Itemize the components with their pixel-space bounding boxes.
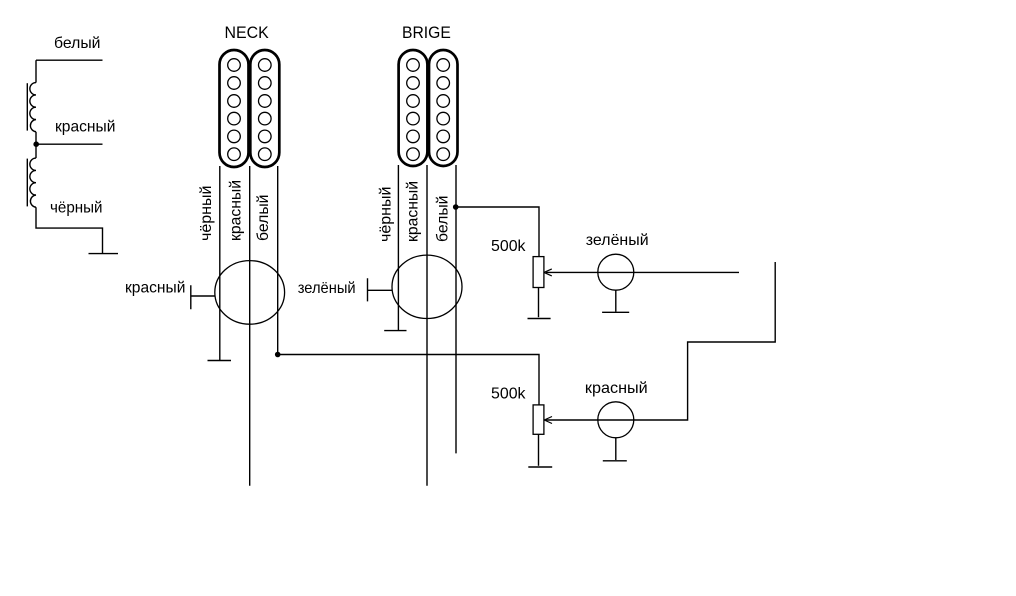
pickup NECK bobbin 2 (stadium outline): [250, 50, 279, 167]
svg-text:белый: белый: [435, 196, 452, 243]
core bar of inductor L2: [26, 159, 28, 207]
svg-text:BRIGE: BRIGE: [402, 23, 451, 42]
svg-text:500k: 500k: [491, 385, 526, 402]
wire: top lead of left coil pair (белый): [36, 59, 103, 61]
pickup NECK bobbin 2 pole pieces: [259, 59, 272, 161]
pickup BRIGE bobbin 2 pole pieces: [437, 59, 450, 161]
wire: neck чёрный down to ground: [219, 166, 221, 361]
wire: R1 bottom to ground: [538, 288, 540, 318]
wire: красный shield to ground: [615, 437, 617, 460]
wire: brige чёрный down to ground: [397, 165, 399, 331]
terminal tick of neck pot красный label: [191, 285, 215, 309]
wire: vertical lead from белый into coil L1: [35, 60, 37, 82]
svg-text:500k: 500k: [491, 238, 526, 255]
wire: bottom lead of coil pair (чёрный): [36, 207, 103, 253]
wire: neck белый down to junction: [277, 166, 279, 355]
svg-text:зелёный: зелёный: [586, 232, 649, 249]
pickup NECK bobbin 1 pole pieces: [228, 59, 241, 161]
wiper wire of R2 to switch right contact riser (through красный shield): [546, 262, 775, 420]
ground bar of neck чёрный wire: [208, 360, 232, 362]
wire: brige белый tap to R1 top: [456, 207, 539, 257]
pickup BRIGE bobbin 1 pole pieces: [407, 59, 420, 161]
wire: segment between L1 and L2: [35, 132, 37, 158]
pickup BRIGE bobbin 2 (stadium outline): [429, 50, 458, 166]
junction: neck белый node: [275, 352, 281, 358]
wire: зелёный shield to ground: [615, 290, 617, 312]
inductor L2 (lower coil of neck humbucker symbol): [30, 158, 36, 207]
svg-text:белый: белый: [255, 195, 272, 242]
wire: center tap horizontal (красный): [36, 143, 103, 145]
potentiometer body (brige volume pot circle): [392, 255, 462, 318]
svg-text:красный: красный: [228, 180, 245, 241]
ground bar of зелёный shield: [602, 311, 629, 313]
junction: center tap node (красный): [33, 141, 39, 147]
ground bar of R2: [528, 466, 552, 468]
potentiometer body (neck volume pot circle): [215, 261, 285, 325]
ground bar of R1: [528, 318, 551, 320]
svg-text:чёрный: чёрный: [198, 186, 215, 242]
wiper arrow of R1: [544, 269, 552, 276]
svg-text:красный: красный: [125, 280, 185, 297]
wire: R2 bottom to ground: [538, 434, 540, 466]
shield circle зелёный: [598, 254, 634, 290]
wire: neck красный down to humbucker/single switch: [249, 166, 251, 486]
svg-text:красный: красный: [405, 181, 422, 242]
pickup BRIGE bobbin 1 (stadium outline): [399, 50, 428, 166]
ground bar of left coil pair: [89, 253, 119, 255]
inductor L1 (upper coil of neck humbucker symbol): [30, 83, 36, 132]
junction: brige белый tap node: [453, 204, 459, 210]
pickup NECK bobbin 1 (stadium outline): [220, 50, 249, 167]
ground bar of brige чёрный wire: [384, 330, 406, 332]
svg-text:красный: красный: [55, 119, 115, 136]
wire: brige белый down to switch pole B: [455, 165, 457, 453]
resistor R2 500k body: [533, 405, 544, 434]
svg-text:белый: белый: [54, 35, 101, 52]
svg-text:чёрный: чёрный: [50, 200, 103, 217]
shield circle красный: [598, 402, 634, 438]
wiper arrow of R2: [544, 417, 552, 424]
svg-text:красный: красный: [585, 380, 648, 397]
svg-text:зелёный: зелёный: [298, 280, 356, 297]
ground bar of красный shield: [603, 460, 627, 462]
core bar of inductor L1: [26, 83, 28, 130]
svg-text:NECK: NECK: [225, 23, 270, 42]
wire: neck белый junction to R2 top: [278, 355, 539, 405]
svg-text:чёрный: чёрный: [378, 187, 395, 243]
resistor R1 500k body: [533, 257, 544, 288]
wire: brige красный down to humbucker/single switch: [426, 165, 428, 486]
terminal tick of brige pot зелёный label: [368, 278, 393, 301]
wiper wire of R1 to switch left contact (through зелёный shield): [546, 271, 739, 273]
